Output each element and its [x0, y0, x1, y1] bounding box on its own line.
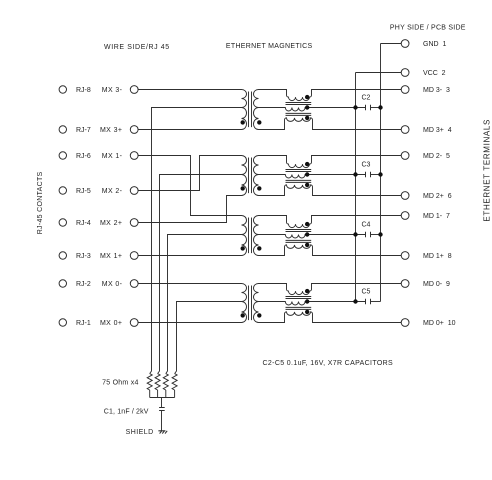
svg-text:RJ-8: RJ-8 — [76, 87, 91, 94]
wire T4 primary center tap to R4 — [175, 302, 242, 374]
svg-text:MD 0+ 10: MD 0+ 10 — [423, 320, 456, 327]
svg-text:C2-C5 0.1uF, 16V, X7R CAPACITO: C2-C5 0.1uF, 16V, X7R CAPACITORS — [263, 360, 394, 367]
capacitor C3 plates — [366, 172, 371, 177]
svg-text:MD 2+ 6: MD 2+ 6 — [423, 193, 452, 200]
svg-text:ETHERNET TERMINALS: ETHERNET TERMINALS — [483, 119, 492, 222]
terminal MD 3+ pin 4 — [401, 126, 409, 134]
capacitor C3 left lead — [356, 174, 366, 176]
terminal MD 1+ pin 8 — [401, 252, 409, 260]
terminal MD 2+ pin 6 — [401, 192, 409, 200]
wire VCC terminal to supply bus — [356, 72, 402, 74]
capacitor C2 right lead — [371, 107, 381, 109]
choke L2 winding C polarity dot — [305, 183, 309, 187]
wire resistor common bus — [150, 397, 175, 399]
terminal MD 0- pin 9 — [401, 280, 409, 288]
transformer T4 secondary polarity dot — [257, 313, 261, 317]
wire MX 2- to T2 primary top (crossover) — [138, 156, 241, 191]
choke L1 winding B polarity dot — [305, 105, 309, 109]
transformer T4 primary winding — [242, 284, 247, 323]
svg-text:MD 1+ 8: MD 1+ 8 — [423, 253, 452, 260]
junction C3 right (ground bus) — [378, 172, 382, 176]
choke L4 winding C polarity dot — [305, 310, 309, 314]
terminal GND pin 1 — [401, 40, 409, 48]
transformer T3 core — [249, 218, 252, 254]
capacitor C5 right lead — [371, 301, 381, 303]
wire MX 0+ to T4 primary bottom — [138, 322, 241, 324]
terminal VCC pin 2 — [401, 69, 409, 77]
wire MX 1+ to T3 primary bottom — [138, 255, 241, 257]
transformer T1 secondary winding — [254, 90, 259, 130]
RJ-45 contact RJ-5 — [59, 187, 66, 194]
wire supply bus (vertical) — [355, 73, 357, 302]
transformer T1 secondary polarity dot — [257, 120, 261, 124]
junction C2 right (ground bus) — [378, 105, 382, 109]
wire GND terminal to ground bus — [381, 43, 402, 45]
resistor R2 75 Ohm — [155, 374, 160, 390]
svg-text:C3: C3 — [362, 162, 371, 169]
choke L2 winding A polarity dot — [305, 162, 309, 166]
svg-text:C2: C2 — [362, 95, 371, 102]
svg-text:MX 0+: MX 0+ — [100, 320, 122, 327]
svg-text:MX 2-: MX 2- — [102, 188, 123, 195]
junction C4 right (ground bus) — [378, 232, 382, 236]
terminal MD 1- pin 7 — [401, 212, 409, 220]
RJ-45 contact RJ-2 — [59, 280, 66, 287]
node MX 2+ — [130, 219, 138, 227]
choke L2 winding C (to MD2+ line) — [259, 185, 402, 196]
transformer T2 secondary winding — [254, 156, 259, 196]
choke L2 core — [286, 170, 312, 183]
resistor R4 75 Ohm — [172, 374, 177, 390]
choke L3 winding A polarity dot — [305, 222, 309, 226]
RJ-45 contact RJ-1 — [59, 319, 66, 326]
svg-text:MD 0- 9: MD 0- 9 — [423, 281, 450, 288]
svg-text:PHY SIDE / PCB SIDE: PHY SIDE / PCB SIDE — [390, 24, 466, 31]
transformer T3 secondary polarity dot — [257, 246, 261, 250]
transformer T3 secondary winding — [254, 216, 259, 256]
svg-text:RJ-2: RJ-2 — [76, 281, 91, 288]
RJ-45 contact RJ-3 — [59, 252, 66, 259]
svg-text:MX 2+: MX 2+ — [100, 220, 122, 227]
svg-text:75 Ohm x4: 75 Ohm x4 — [102, 379, 139, 386]
wire R1 to common bus — [149, 390, 151, 398]
svg-text:MD 1- 7: MD 1- 7 — [423, 213, 450, 220]
choke L4 core — [286, 297, 312, 310]
transformer T1 primary winding — [241, 90, 246, 130]
svg-text:VCC 2: VCC 2 — [423, 70, 446, 77]
choke L1 winding B (center-tap line) — [259, 108, 366, 111]
wire R2 to common bus — [157, 390, 159, 398]
junction C2 left (supply bus / center tap) — [353, 105, 357, 109]
choke L1 winding C polarity dot — [305, 116, 309, 120]
junction C4 left (supply bus / center tap) — [353, 232, 357, 236]
wire bus to C1 — [161, 398, 163, 408]
svg-text:RJ-3: RJ-3 — [76, 253, 91, 260]
transformer T2 secondary polarity dot — [257, 186, 261, 190]
choke L2 winding B polarity dot — [305, 172, 309, 176]
node MX 2- — [130, 187, 138, 195]
choke L2 winding B (center-tap line) — [259, 175, 366, 179]
svg-text:C1, 1nF / 2kV: C1, 1nF / 2kV — [104, 408, 149, 415]
choke L1 winding C (to MD3+ line) — [259, 118, 402, 130]
svg-text:SHIELD: SHIELD — [126, 429, 154, 436]
choke L1 core — [286, 103, 312, 116]
choke L3 winding C (to MD1+ line) — [259, 245, 402, 256]
capacitor C4 right lead — [371, 234, 381, 236]
capacitor C2 plates — [366, 105, 371, 110]
node MX 1- — [130, 152, 138, 160]
svg-text:RJ-4: RJ-4 — [76, 220, 91, 227]
choke L3 winding B polarity dot — [305, 232, 309, 236]
capacitor C3 right lead — [371, 174, 381, 176]
node MX 1+ — [130, 252, 138, 260]
wire MX 2+ to T2 primary bottom (crossover) — [138, 196, 241, 223]
svg-text:RJ-5: RJ-5 — [76, 188, 91, 195]
wire R4 to common bus — [174, 390, 176, 398]
transformer T3 primary polarity dot — [241, 246, 245, 250]
capacitor C4 plates — [366, 232, 371, 237]
svg-text:RJ-45 CONTACTS: RJ-45 CONTACTS — [37, 171, 44, 234]
svg-text:MX 0-: MX 0- — [102, 281, 123, 288]
choke L4 winding C (to MD0+ line) — [259, 312, 402, 323]
transformer T3 primary winding — [242, 216, 247, 256]
svg-text:MX 1-: MX 1- — [102, 153, 123, 160]
choke L2 winding A (to MD2- line) — [259, 156, 402, 168]
svg-text:C5: C5 — [362, 289, 371, 296]
svg-text:MD 3- 3: MD 3- 3 — [423, 87, 450, 94]
capacitor C1 — [159, 408, 165, 411]
RJ-45 contact RJ-8 — [59, 86, 66, 93]
chassis ground symbol — [158, 431, 167, 434]
terminal MD 3- pin 3 — [401, 86, 409, 94]
transformer T2 primary winding — [242, 156, 247, 196]
choke L4 winding B polarity dot — [305, 299, 309, 303]
wire MX 3- to T1 primary top — [138, 89, 241, 91]
transformer T4 primary polarity dot — [241, 313, 245, 317]
choke L3 winding B (center-tap line) — [259, 235, 366, 238]
capacitor C2 left lead — [356, 107, 366, 109]
capacitor C5 left lead — [356, 301, 366, 303]
wire T2 primary center tap to R2 — [158, 175, 242, 374]
svg-text:MD 2- 5: MD 2- 5 — [423, 153, 450, 160]
choke L4 winding B (center-tap line) — [259, 302, 366, 305]
capacitor C4 left lead — [356, 234, 366, 236]
svg-text:RJ-6: RJ-6 — [76, 153, 91, 160]
svg-text:WIRE SIDE/RJ 45: WIRE SIDE/RJ 45 — [104, 44, 170, 51]
RJ-45 contact RJ-4 — [59, 219, 66, 226]
wire MX 1- to T3 primary top (crossover) — [138, 156, 241, 216]
node MX 0+ — [130, 319, 138, 327]
terminal MD 0+ pin 10 — [401, 319, 409, 327]
node MX 3+ — [130, 126, 138, 134]
terminal MD 2- pin 5 — [401, 152, 409, 160]
resistor R1 75 Ohm — [147, 374, 152, 390]
transformer T1 primary polarity dot — [241, 120, 245, 124]
wire MX 0- to T4 primary top — [138, 283, 241, 285]
node MX 0- — [130, 280, 138, 288]
choke L3 core — [286, 230, 312, 243]
transformer T2 core — [249, 158, 252, 194]
choke L1 winding A polarity dot — [305, 95, 309, 99]
svg-text:MX 3-: MX 3- — [102, 87, 123, 94]
wire T3 primary center tap to R3 — [166, 235, 242, 374]
svg-text:ETHERNET MAGNETICS: ETHERNET MAGNETICS — [226, 43, 313, 50]
svg-text:RJ-7: RJ-7 — [76, 127, 91, 134]
svg-text:MX 1+: MX 1+ — [100, 253, 122, 260]
junction C5 left (supply bus / center tap) — [353, 299, 357, 303]
wire R3 to common bus — [165, 390, 167, 398]
RJ-45 contact RJ-6 — [59, 152, 66, 159]
RJ-45 contact RJ-7 — [59, 126, 66, 133]
choke L3 winding C polarity dot — [305, 243, 309, 247]
choke L4 winding A polarity dot — [305, 289, 309, 293]
transformer T4 core — [249, 286, 252, 321]
resistor R3 75 Ohm — [163, 374, 168, 390]
svg-text:GND 1: GND 1 — [423, 41, 446, 48]
wire ground bus (vertical) — [380, 44, 382, 302]
svg-text:MD 3+ 4: MD 3+ 4 — [423, 127, 452, 134]
svg-text:C4: C4 — [362, 222, 371, 229]
svg-text:RJ-1: RJ-1 — [76, 320, 91, 327]
wire T1 primary center tap to R1 — [150, 108, 242, 374]
transformer T2 primary polarity dot — [241, 186, 245, 190]
transformer T4 secondary winding — [254, 284, 259, 323]
wire C1 to shield ground — [161, 411, 163, 431]
choke L1 winding A (to MD3- line) — [259, 90, 402, 101]
choke L3 winding A (to MD1- line) — [259, 216, 402, 228]
transformer T1 core — [249, 92, 252, 128]
node MX 3- — [130, 86, 138, 94]
junction C3 left (supply bus / center tap) — [353, 172, 357, 176]
capacitor C5 plates — [366, 299, 371, 304]
svg-text:MX 3+: MX 3+ — [100, 127, 122, 134]
choke L4 winding A (to MD0- line) — [259, 284, 402, 295]
wire MX 3+ to T1 primary bottom — [138, 129, 241, 131]
